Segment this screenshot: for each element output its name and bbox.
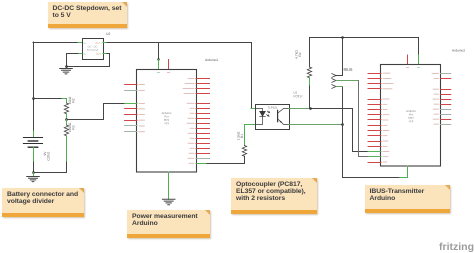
pin top labels Arduino2 xyxy=(417,67,419,69)
pins Arduino1 right side xyxy=(196,79,210,159)
DC-DC converter U2 xyxy=(83,39,104,60)
wire battery minus down xyxy=(33,147,35,162)
wire Arduino1 bottom GND xyxy=(168,172,170,199)
svg-text:IBUS: IBUS xyxy=(343,68,352,72)
ground below DC-DC xyxy=(60,67,73,74)
svg-text:R1: R1 xyxy=(240,134,244,138)
svg-text:PC817: PC817 xyxy=(293,94,303,98)
note N4: Optocoupler xyxy=(231,178,317,214)
note N2: Battery connector xyxy=(2,188,84,217)
note N1: DC-DC Stepdown xyxy=(48,2,127,28)
svg-text:Konverter: Konverter xyxy=(87,49,98,52)
resistor R4 xyxy=(309,38,311,68)
node junction left rail to divider xyxy=(32,97,35,100)
ground below Arduino1 xyxy=(162,199,175,204)
wire DC-DC OUT- loop to ground xyxy=(103,53,107,55)
resistor R2 xyxy=(64,103,68,114)
svg-text:OUT-: OUT- xyxy=(96,53,102,56)
battery CON1 xyxy=(23,137,42,139)
pin labels Arduino2 (tiny) xyxy=(383,73,439,162)
pin Arduino2 bottom GND (connected, green) xyxy=(407,166,409,171)
net arrow IBUS 3 xyxy=(332,85,336,89)
ground below battery xyxy=(27,173,40,182)
node battery gnd junction xyxy=(32,171,35,174)
pin Arduino2 top GND (unconnected) xyxy=(407,55,409,65)
wire opto collector to R4 and Arduino2 RX xyxy=(289,108,311,110)
op Arduino2 (IBUS transmitter) box xyxy=(381,65,441,167)
svg-text:v13: v13 xyxy=(164,121,169,125)
resistor R3 xyxy=(66,120,68,126)
svg-text:In-: In- xyxy=(83,53,86,56)
op Arduino1 (Power measurement) box xyxy=(137,70,197,173)
wire left rail vertical xyxy=(33,42,35,131)
wire divider top branch xyxy=(33,98,62,100)
pin labels Arduino1 (tiny) xyxy=(139,78,194,163)
wire opto emitter to GND net xyxy=(289,124,343,126)
wire R1 top to opto cathode xyxy=(245,125,256,141)
wire VCC top rail right xyxy=(310,38,419,56)
wire TX to R1 xyxy=(207,156,245,163)
pins Arduino2 right side xyxy=(441,74,451,125)
net arrow IBUS 1 xyxy=(332,74,336,78)
pins Arduino2 left side xyxy=(368,74,381,163)
wire arrow2 to Arduino2 pin xyxy=(336,80,359,82)
wire IBUS arrow1 up to VCC rail xyxy=(336,38,343,76)
svg-text:R3: R3 xyxy=(72,125,76,129)
wire DC-DC In- to ground xyxy=(78,53,82,55)
svg-text:CON1: CON1 xyxy=(47,151,51,160)
resistor R1 xyxy=(244,140,246,146)
svg-text:Arduino2: Arduino2 xyxy=(452,49,465,53)
fritzing watermark xyxy=(439,241,474,253)
wire GND net vertical and bottom run xyxy=(343,87,400,178)
wire DC-DC OUT+ 5V rail xyxy=(103,42,107,44)
note N3: Power measurement Arduino xyxy=(127,210,210,238)
pins Arduino1 left side xyxy=(125,85,137,132)
wire divider mid to Arduino1 ADC pin xyxy=(67,104,125,120)
svg-text:R2: R2 xyxy=(72,98,76,102)
pin top labels Arduino1 xyxy=(157,72,159,74)
wire 5V drop to Arduino1 RAW xyxy=(158,43,160,60)
pin Arduino1 TX (bottom right, connected) xyxy=(196,163,207,165)
node divider midpoint xyxy=(65,118,68,121)
svg-text:R4: R4 xyxy=(298,52,302,56)
svg-text:TLP621: TLP621 xyxy=(267,106,278,110)
svg-text:Arduino2: Arduino2 xyxy=(205,58,218,62)
pin Arduino1 top GND (unconnected) xyxy=(168,60,170,71)
svg-text:OUT+: OUT+ xyxy=(95,42,102,45)
svg-text:v13: v13 xyxy=(409,119,414,123)
opto phototransistor xyxy=(278,109,289,125)
wire 5V down to opto anode xyxy=(251,43,253,109)
optocoupler U1 box xyxy=(256,105,290,130)
wire arrow3 to GND net xyxy=(336,86,343,88)
net arrow IBUS 2 xyxy=(332,79,336,83)
note N5: IBUS-Transmitter Arduino xyxy=(365,185,451,213)
svg-text:U2: U2 xyxy=(106,32,110,36)
opto LED xyxy=(256,109,270,125)
wire battery gnd to R3 bottom xyxy=(33,172,67,174)
wire 5V rail top-left: DC-DC In+ to left rail xyxy=(33,42,78,44)
node DC-DC gnd junction xyxy=(65,65,68,68)
